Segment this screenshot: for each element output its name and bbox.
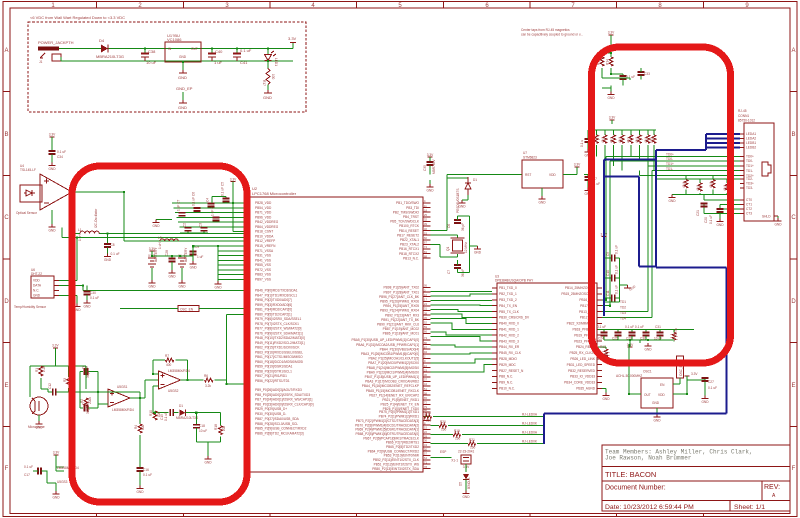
svg-text:can be capacitively coupled to: can be capacitively coupled to ground or…	[521, 33, 583, 37]
svg-text:DP83848/USQA/OPB PHY: DP83848/USQA/OPB PHY	[495, 279, 534, 283]
U2 left pin numbers	[246, 199, 249, 433]
ground C8	[104, 254, 111, 257]
svg-text:PBA3_P1[26]/MCOB1/PWM1[6]/CAP0: PBA3_P1[26]/MCOB1/PWM1[6]/CAP0[0]	[361, 352, 419, 356]
svg-text:GND: GND	[178, 75, 187, 80]
CONN1 pin stubs	[740, 134, 744, 214]
resistor R21 160	[431, 443, 469, 445]
wire top rail	[59, 49, 293, 62]
ground mic out	[205, 456, 212, 459]
ground termination	[672, 194, 686, 196]
svg-text:C11: C11	[606, 290, 610, 296]
ground cluster	[156, 219, 172, 221]
CONN1 jack symbol	[762, 162, 771, 176]
svg-text:PB28_VDD: PB28_VDD	[255, 201, 272, 205]
svg-text:PB27_RESET_N: PB27_RESET_N	[499, 369, 524, 373]
svg-text:C18: C18	[199, 424, 205, 428]
svg-text:PB57_P0[21]/RI1/RD1: PB57_P0[21]/RI1/RD1	[255, 374, 287, 378]
svg-text:3.3V: 3.3V	[49, 133, 56, 137]
svg-text:PB1_TXD_0: PB1_TXD_0	[499, 286, 517, 290]
svg-text:MBRA210LT3G: MBRA210LT3G	[176, 416, 199, 420]
wire junction dots	[76, 47, 688, 413]
svg-text:GND: GND	[458, 205, 466, 209]
svg-text:200k: 200k	[88, 397, 92, 404]
svg-text:PBA2_P1[25]/MCOA1/CLKOUT1[5]: PBA2_P1[25]/MCOA1/CLKOUT1[5]	[369, 357, 420, 361]
wire regulator gnd	[182, 62, 184, 70]
svg-text:PB56_P0[22]/RTS1/TD1: PB56_P0[22]/RTS1/TD1	[255, 379, 290, 383]
LED LED1	[265, 49, 279, 69]
svg-text:LM358MX/RD4: LM358MX/RD4	[168, 369, 190, 373]
ground battery X1-2	[149, 280, 156, 283]
capacitor C15 0.1uF	[169, 409, 171, 416]
svg-text:GND: GND	[716, 223, 724, 227]
svg-text:PB31_LED_SPEED: PB31_LED_SPEED	[567, 363, 596, 367]
wire array bottoms to TD lines	[639, 171, 648, 179]
svg-text:PB83_VSS: PB83_VSS	[255, 273, 271, 277]
svg-text:C27: C27	[708, 380, 714, 384]
svg-text:CT3: CT3	[746, 212, 752, 216]
svg-text:RJ-LED0A: RJ-LED0A	[522, 431, 538, 435]
svg-text:GND: GND	[668, 199, 676, 203]
svg-text:PB92_P1[23]/ANT_RX3: PB92_P1[23]/ANT_RX3	[385, 313, 419, 317]
svg-text:PB22_XTAL1: PB22_XTAL1	[400, 238, 419, 242]
net label OSC_EN	[178, 306, 199, 312]
title block sheet cell	[729, 501, 731, 512]
CONN1 SHLD pin	[774, 215, 778, 217]
svg-text:PB10_VDDA: PB10_VDDA	[255, 234, 274, 238]
ground DHT	[74, 304, 81, 307]
op-amp U5GS3 stub	[47, 459, 64, 483]
svg-text:GND_EP: GND_EP	[176, 86, 193, 91]
svg-text:3.3V: 3.3V	[691, 372, 698, 376]
svg-text:C33: C33	[644, 72, 650, 76]
wire rail B	[62, 228, 250, 238]
svg-text:PB3_TXD_2: PB3_TXD_2	[499, 298, 517, 302]
svg-text:PB35_AGND: PB35_AGND	[576, 387, 595, 391]
svg-text:PB91_P1[22]/ANT_TX_BK: PB91_P1[22]/ANT_TX_BK	[381, 318, 420, 322]
svg-text:GND: GND	[474, 251, 482, 255]
CONN1 pin names block	[746, 132, 756, 216]
wire bypass rail	[598, 329, 694, 331]
frame column ticks	[97, 2, 704, 517]
svg-text:PB15_VREFN: PB15_VREFN	[255, 244, 276, 248]
resistor R28 49.9	[647, 130, 649, 135]
svg-text:R7: R7	[165, 354, 169, 358]
svg-text:EN: EN	[660, 383, 665, 387]
svg-text:PB95_P1[26]/PWM1_RX06: PB95_P1[26]/PWM1_RX06	[380, 300, 419, 304]
svg-text:3.3V: 3.3V	[53, 451, 60, 455]
svg-text:GND: GND	[104, 258, 112, 262]
resistor R22 49.9	[595, 130, 597, 135]
svg-text:PB1_TDO/SWO: PB1_TDO/SWO	[396, 201, 420, 205]
ground C26	[585, 149, 592, 152]
svg-text:C30: C30	[90, 291, 96, 295]
svg-text:C8: C8	[111, 243, 115, 247]
svg-text:PB44_RX_ER: PB44_RX_ER	[499, 345, 520, 349]
wire OSC_EN	[120, 308, 250, 310]
svg-text:36 pF: 36 pF	[461, 223, 465, 231]
svg-text:U7: U7	[523, 151, 527, 155]
U2 left pin names block	[255, 201, 314, 435]
wire led resistor bottoms	[602, 68, 611, 78]
svg-text:C28: C28	[165, 250, 169, 256]
svg-text:49.9: 49.9	[609, 137, 613, 143]
svg-text:OUT: OUT	[191, 47, 198, 51]
svg-text:TD3+: TD3+	[746, 182, 754, 186]
svg-text:LEDB2: LEDB2	[746, 146, 756, 150]
svg-text:TD1+: TD1+	[666, 162, 674, 166]
svg-text:TD3: TD3	[620, 311, 626, 315]
resistor R33 49.9	[726, 179, 728, 183]
svg-text:LEDB1: LEDB1	[746, 141, 756, 145]
svg-text:0.1 uF: 0.1 uF	[615, 245, 619, 254]
svg-text:C21: C21	[696, 210, 700, 216]
svg-text:R21: R21	[469, 438, 475, 442]
svg-text:PB3_TDI: PB3_TDI	[406, 206, 419, 210]
svg-text:PB7_P0[24]/AD0[1]/I2SRX_WS/CAP: PB7_P0[24]/AD0[1]/I2SRX_WS/CAP3[1]	[255, 398, 313, 402]
svg-text:PB29_P0[29]/USB_D+: PB29_P0[29]/USB_D+	[255, 407, 287, 411]
wire stage1 to stage2	[140, 380, 159, 398]
wire mic top rail	[30, 352, 86, 366]
wire PFBIN rails	[604, 258, 628, 302]
svg-text:C10: C10	[606, 270, 610, 276]
svg-text:160: 160	[441, 428, 447, 432]
svg-text:LM358MX/RD4: LM358MX/RD4	[57, 466, 79, 470]
svg-text:49.9: 49.9	[696, 185, 700, 191]
wire rail A with L1	[75, 233, 250, 235]
svg-text:I2C-Oscillator: I2C-Oscillator	[94, 208, 98, 228]
svg-text:36 pF: 36 pF	[86, 370, 90, 378]
svg-text:3.3V: 3.3V	[608, 31, 615, 35]
svg-text:PB6_P0[23]/AD0[0]/I2SRX_CLK/CA: PB6_P0[23]/AD0[0]/I2SRX_CLK/CAP3[0]	[255, 402, 314, 406]
wire VDD rails	[172, 203, 250, 227]
svg-text:PB88_P0[28]/SCL0/USB_SCL: PB88_P0[28]/SCL0/USB_SCL	[255, 422, 298, 426]
svg-text:TD1-: TD1-	[746, 169, 753, 173]
svg-text:GND: GND	[774, 223, 782, 227]
svg-text:POWER_JACKPTH: POWER_JACKPTH	[38, 40, 74, 45]
capacitor C3 0.1uF	[203, 227, 205, 228]
svg-text:10 uF: 10 uF	[199, 429, 207, 433]
resistor R26 49.9	[630, 130, 632, 135]
U3 right pin stubs	[597, 288, 602, 388]
wire DHT VDD	[59, 238, 77, 281]
svg-text:Joe Rawson, Noah Brümmer: Joe Rawson, Noah Brümmer	[605, 455, 692, 462]
svg-text:GND: GND	[652, 401, 660, 405]
frame column numbers	[51, 3, 749, 9]
svg-text:PB71_VDD: PB71_VDD	[255, 211, 272, 215]
svg-text:TD0+: TD0+	[746, 155, 754, 159]
svg-text:PB87_P0[27]/SDA0/USB_SDA: PB87_P0[27]/SDA0/USB_SDA	[255, 417, 300, 421]
svg-text:PBA4_P1[30]/VBUS/AD0[4]: PBA4_P1[30]/VBUS/AD0[4]	[380, 347, 419, 351]
resistor R2 200k	[84, 398, 88, 407]
title block TITLE row	[602, 466, 790, 468]
svg-text:GND: GND	[538, 201, 546, 205]
svg-text:PB42_RXD_2: PB42_RXD_2	[499, 333, 519, 337]
svg-text:PB5_TCK/SWDCLK: PB5_TCK/SWDCLK	[390, 220, 420, 224]
svg-text:4.87k: 4.87k	[674, 328, 678, 336]
svg-text:20k: 20k	[222, 425, 226, 431]
svg-text:Date: 10/23/2012 6:59:44 PM: Date: 10/23/2012 6:59:44 PM	[605, 504, 694, 511]
svg-text:Document Number:: Document Number:	[605, 485, 666, 492]
svg-text:GND: GND	[178, 105, 187, 110]
svg-text:PB2_TXD_1: PB2_TXD_1	[499, 292, 517, 296]
supply rail OSC1	[685, 375, 690, 377]
capacitor C34 0.1uF	[49, 150, 56, 152]
svg-text:PB55_VSS: PB55_VSS	[255, 263, 271, 267]
U3 left pin names block	[499, 286, 530, 390]
capacitor C37 0.1uF	[584, 174, 588, 177]
capacitor C7 1uF	[179, 212, 186, 214]
capacitor C24	[603, 330, 605, 333]
svg-text:TD0-: TD0-	[746, 159, 753, 163]
svg-text:3.3V: 3.3V	[574, 163, 581, 167]
svg-text:F: F	[792, 466, 796, 472]
wire mic to C12	[39, 389, 53, 397]
svg-text:C3: C3	[199, 223, 203, 227]
U6 pin stubs	[54, 281, 59, 296]
capacitor C31	[659, 330, 661, 333]
ground C37	[585, 188, 592, 191]
svg-text:0.1 uF: 0.1 uF	[709, 215, 713, 224]
net label OSC_EN vertical	[677, 356, 684, 378]
capacitor C22 36pF	[454, 219, 461, 221]
svg-text:GND: GND	[178, 285, 186, 289]
svg-text:F: F	[5, 466, 9, 472]
svg-text:3.2k: 3.2k	[205, 384, 211, 388]
battery X1-4	[178, 258, 186, 267]
svg-text:PB94_P1[25]/ANT_RX05: PB94_P1[25]/ANT_RX05	[383, 304, 419, 308]
svg-text:B: B	[4, 132, 8, 138]
capacitor C2 0.1uF	[187, 227, 189, 228]
svg-text:100: 100	[271, 74, 275, 80]
svg-text:C14: C14	[82, 402, 88, 406]
svg-text:PB21_P1[9]/ENET_RXD1: PB21_P1[9]/ENET_RXD1	[382, 398, 419, 402]
svg-text:PB10_N.C.: PB10_N.C.	[499, 387, 515, 391]
svg-text:0.1 uF: 0.1 uF	[164, 412, 168, 421]
capacitor C28	[171, 256, 173, 258]
capacitor C21	[701, 203, 708, 205]
capacitor C25	[617, 330, 619, 333]
svg-text:PB9_N.C.: PB9_N.C.	[499, 381, 513, 385]
resistor R23 49.9	[604, 130, 606, 135]
svg-text:Center taps from RJ-45 magneti: Center taps from RJ-45 magnetics	[521, 28, 570, 32]
svg-text:TD1+: TD1+	[746, 164, 754, 168]
svg-text:PB17_RESET2: PB17_RESET2	[397, 233, 419, 237]
svg-text:2.2k: 2.2k	[42, 366, 46, 372]
ground C30	[84, 300, 91, 303]
svg-text:GND: GND	[148, 285, 156, 289]
wire bottom rail	[61, 57, 293, 61]
svg-text:L1: L1	[78, 228, 82, 232]
U2 right pin numbers	[424, 199, 427, 469]
svg-text:BATTERY: BATTERY	[184, 247, 188, 262]
resistor R25 49.9	[621, 130, 623, 135]
svg-text:U5GS1: U5GS1	[117, 385, 128, 389]
svg-text:PB8_P0[25]/AD0[2]/I2SRX_SDA/TX: PB8_P0[25]/AD0[2]/I2SRX_SDA/TXD3	[255, 393, 310, 397]
op-amp U5GS2	[159, 371, 181, 389]
wire C12 junction	[69, 391, 108, 393]
node MIC_OUT junction	[153, 412, 169, 414]
svg-text:PBA6_P1[31]/MCOA2/USB_PPWR/CAP: PBA6_P1[31]/MCOA2/USB_PPWR/CAP1[1]	[356, 343, 419, 347]
svg-text:RJ-45: RJ-45	[738, 109, 747, 113]
svg-text:C6: C6	[447, 224, 451, 228]
capacitor C1 1uF	[213, 216, 220, 218]
svg-text:1 uF C7: 1 uF C7	[177, 199, 181, 211]
svg-text:C4: C4	[206, 198, 210, 202]
svg-text:OSC1: OSC1	[643, 370, 652, 374]
resistor R6 3.2k	[187, 379, 203, 381]
wire DHT GND	[59, 296, 77, 304]
ground under R17	[263, 90, 272, 100]
resistor R17 100	[262, 69, 275, 91]
svg-text:LEDA2: LEDA2	[746, 137, 756, 141]
svg-text:PB63_P0[16]/RXD1/SSEL0/SSEL: PB63_P0[16]/RXD1/SSEL0/SSEL	[255, 350, 303, 354]
svg-text:PB58_P0[20]/DTR1/SCL1: PB58_P0[20]/DTR1/SCL1	[255, 369, 292, 373]
capacitor C33	[602, 78, 630, 80]
svg-text:GND: GND	[33, 294, 41, 298]
svg-text:TD4: TD4	[620, 317, 626, 321]
capacitor C5 0.1uF	[225, 197, 227, 199]
supply 3.3V at power out	[288, 36, 297, 49]
svg-text:PB41_RXD_1: PB41_RXD_1	[499, 328, 519, 332]
U3 right pin names block	[561, 286, 596, 390]
svg-text:PB86_P1[18]/ANT_MC01: PB86_P1[18]/ANT_MC01	[383, 332, 420, 336]
ground under regulator	[178, 70, 187, 80]
svg-text:OSC_EN: OSC_EN	[180, 307, 194, 311]
resistor R32 49.9	[712, 176, 714, 180]
bus PHY side	[604, 160, 656, 316]
resistor R11 RBIAS	[673, 330, 675, 333]
svg-text:C20: C20	[704, 217, 708, 223]
svg-text:GND: GND	[136, 490, 144, 494]
ground C16	[137, 486, 144, 489]
svg-text:GND: GND	[168, 275, 176, 279]
resistor R7 400	[165, 358, 173, 362]
svg-text:PB97_VSS: PB97_VSS	[255, 277, 271, 281]
svg-text:MBR705V: MBR705V	[432, 159, 436, 174]
op-amp U5GS1	[108, 389, 130, 407]
diode D1 PESD6V0S1BTS	[447, 177, 468, 178]
svg-text:U5GS2: U5GS2	[168, 389, 179, 393]
capacitor C30 0.1uF	[86, 286, 88, 292]
svg-text:PB18_RTCX2: PB18_RTCX2	[399, 252, 419, 256]
diode D5 B340LA	[465, 464, 467, 472]
ground crystal	[470, 245, 478, 247]
svg-text:0.1 uF C6: 0.1 uF C6	[192, 192, 196, 206]
svg-text:C17: C17	[24, 473, 30, 477]
svg-text:DATA: DATA	[33, 284, 42, 288]
title block document row	[602, 480, 790, 482]
svg-text:PB49_P0[11]/RXD2/SCL2/MAT3[1]: PB49_P0[11]/RXD2/SCL2/MAT3[1]	[255, 341, 305, 345]
ground C9	[190, 261, 197, 264]
svg-text:R17: R17	[262, 80, 266, 86]
svg-text:TD2: TD2	[620, 306, 626, 310]
battery X1-2	[148, 258, 156, 267]
svg-text:GND: GND	[152, 224, 160, 228]
svg-text:C38: C38	[148, 49, 156, 54]
svg-text:GND: GND	[653, 419, 661, 423]
svg-text:400: 400	[166, 363, 172, 367]
resistor R24 49.9	[613, 130, 615, 135]
capacitor C30b	[645, 330, 647, 333]
svg-text:GND: GND	[48, 167, 56, 171]
svg-text:GND: GND	[179, 55, 187, 59]
capacitor C38 10uF	[141, 49, 157, 66]
svg-text:22-23-2041: 22-23-2041	[458, 450, 475, 454]
capacitor C41 0.1uF	[233, 48, 252, 65]
svg-text:PB25_RX_CLK25: PB25_RX_CLK25	[569, 351, 595, 355]
svg-text:C16: C16	[143, 468, 149, 472]
wire bus U2 to U3	[431, 291, 493, 372]
svg-text:TITLE: BACON: TITLE: BACON	[605, 470, 656, 479]
svg-text:STM6823: STM6823	[523, 156, 537, 160]
U2 right pin names block	[351, 201, 419, 471]
svg-text:C: C	[791, 215, 796, 221]
svg-text:CONN1: CONN1	[738, 114, 749, 118]
svg-text:PB59_P0[19]/DSR1/SDA1: PB59_P0[19]/DSR1/SDA1	[255, 365, 293, 369]
svg-text:LED1: LED1	[274, 58, 278, 66]
connector J1 power jack	[38, 47, 59, 51]
U2 right pin stubs	[423, 203, 431, 469]
svg-text:R19: R19	[454, 429, 460, 433]
svg-text:0.1 uF C5: 0.1 uF C5	[221, 182, 225, 196]
svg-text:J1: J1	[39, 60, 43, 64]
ground ESP	[463, 491, 470, 494]
svg-text:PB31_VSS: PB31_VSS	[255, 254, 271, 258]
svg-text:600: 600	[141, 424, 145, 430]
svg-text:3.3V: 3.3V	[609, 116, 616, 120]
svg-text:PB100_RTCK: PB100_RTCK	[399, 224, 420, 228]
wire R6 to micro	[215, 314, 250, 384]
svg-text:1 uF C1: 1 uF C1	[211, 204, 215, 216]
wire VSS comb	[218, 246, 250, 281]
svg-text:PB16_RTCX1: PB16_RTCX1	[399, 247, 419, 251]
inductor L3	[160, 239, 178, 241]
svg-text:R10: R10	[149, 410, 153, 416]
ground PHY agnd	[602, 388, 606, 392]
svg-text:PB71_VSSA: PB71_VSSA	[255, 249, 274, 253]
U4 photodiode box	[20, 185, 42, 202]
svg-text:R18: R18	[214, 424, 218, 430]
svg-text:C35: C35	[423, 165, 427, 171]
svg-text:<6 VDC from Wall Wart Regulate: <6 VDC from Wall Wart Regulated Down to …	[30, 15, 125, 20]
svg-text:49.9: 49.9	[635, 137, 639, 143]
svg-text:GND: GND	[204, 461, 212, 465]
ground GND_EP	[178, 100, 187, 110]
svg-text:85750-1012: 85750-1012	[738, 119, 755, 123]
svg-text:49.9: 49.9	[650, 137, 654, 143]
svg-text:PB4_TX_EN: PB4_TX_EN	[499, 304, 518, 308]
svg-text:RJ-LED0K: RJ-LED0K	[522, 440, 538, 444]
svg-text:PB23_XTAL2: PB23_XTAL2	[400, 243, 419, 247]
svg-text:R14: R14	[606, 59, 610, 65]
resistor R31 49.9	[699, 179, 701, 183]
svg-text:PB76_P0[9]/I2STX_SDA/MAT2[1]: PB76_P0[9]/I2STX_SDA/MAT2[1]	[255, 331, 303, 335]
svg-text:E: E	[791, 383, 795, 389]
resistor R3 200k	[67, 377, 71, 386]
svg-text:C2: C2	[183, 223, 187, 227]
svg-text:C7: C7	[447, 270, 451, 274]
svg-text:0.1 uF: 0.1 uF	[111, 252, 120, 256]
capacitor C8 0.1uF	[104, 243, 111, 245]
resistor R19 160	[431, 434, 454, 436]
svg-text:PB28_MDIO: PB28_MDIO	[499, 357, 517, 361]
ground PFBIN	[624, 285, 631, 288]
svg-text:100: 100	[157, 411, 161, 417]
svg-text:PB9_P0[26]/AD0[3]/AOUT/RXD3: PB9_P0[26]/AD0[3]/AOUT/RXD3	[255, 388, 302, 392]
ground VSS comb	[215, 281, 222, 284]
title block outline	[602, 445, 790, 511]
svg-text:12 MHz: 12 MHz	[464, 242, 468, 253]
